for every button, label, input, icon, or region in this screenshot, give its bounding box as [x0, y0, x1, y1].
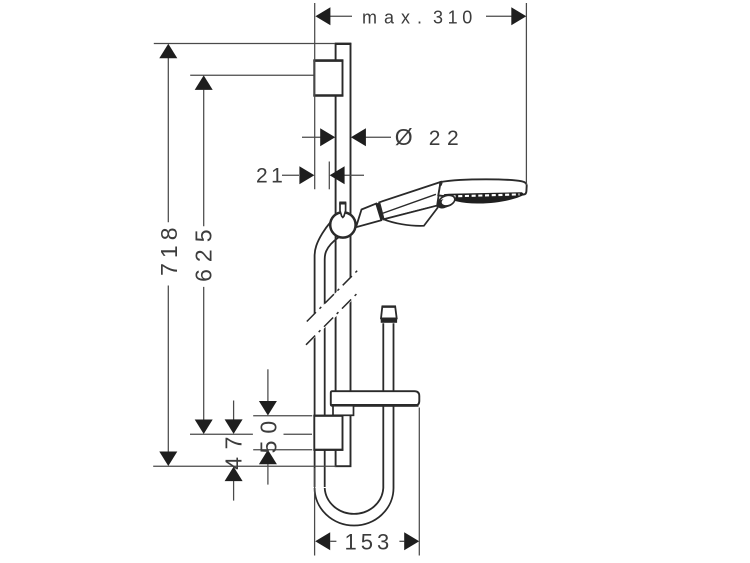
dia22 leader right: [366, 136, 392, 138]
718 top tick: [154, 43, 335, 45]
max310 right arrow: [511, 7, 526, 25]
dimension texts: [156, 8, 477, 555]
47 top arrow: [225, 419, 243, 434]
shelf clamp: [333, 406, 354, 416]
max310 right extension: [525, 3, 527, 185]
625 top tick: [190, 74, 314, 76]
50 bottom arrow: [259, 450, 277, 465]
break line lower: [306, 292, 359, 345]
svg-text:153: 153: [345, 529, 394, 554]
svg-text:max.: max.: [362, 8, 429, 28]
21 right tick: [328, 162, 330, 190]
hand shower handle: [379, 182, 440, 219]
svg-text:Ø: Ø: [395, 124, 413, 150]
bottom bracket heavy edges: [313, 415, 343, 417]
soap dish shelf: [331, 391, 420, 406]
50 dim line: [267, 369, 269, 401]
153 right arrow: [404, 532, 419, 550]
break band: [302, 267, 362, 351]
top bracket heavy edges: [313, 59, 343, 62]
svg-text:21: 21: [256, 164, 286, 187]
hose nut base band: [381, 318, 397, 322]
slider knob: [340, 203, 346, 217]
svg-text:718: 718: [156, 223, 182, 276]
21 right arrow: [330, 166, 345, 184]
718 bottom arrow: [159, 452, 177, 467]
hand shower collar: [356, 204, 381, 228]
50 ticks: [253, 415, 312, 417]
spray nozzle dashes: [452, 194, 520, 196]
svg-text:22: 22: [429, 127, 466, 150]
top wall bracket: [314, 61, 342, 96]
153 dim stubs: [330, 540, 336, 542]
slider knob cap: [339, 202, 346, 205]
625/47 tick: [190, 433, 253, 435]
break line upper: [307, 269, 360, 322]
dia22 right arrow: [351, 128, 366, 146]
head-handle notch: [440, 182, 442, 185]
21 leader left: [282, 174, 299, 176]
625 bottom arrow: [195, 420, 213, 435]
625 dim line: [203, 90, 205, 227]
718 dim line: [167, 58, 169, 222]
svg-text:47: 47: [221, 429, 247, 470]
21 left arrow: [299, 166, 314, 184]
718 top arrow: [159, 44, 177, 59]
21 leader right: [344, 174, 364, 176]
slider circle: [330, 212, 355, 237]
ball joint highlight: [441, 195, 455, 206]
dimension arrows: [159, 7, 526, 550]
153 left arrow: [315, 532, 330, 550]
handle underside: [384, 206, 438, 226]
svg-text:625: 625: [191, 223, 217, 282]
shower head body: [438, 179, 526, 196]
hose from slider (inner): [325, 237, 339, 487]
153 extension lines: [314, 468, 316, 556]
bar top cap heavy edge: [335, 43, 352, 45]
47 bottom arrow: [225, 467, 243, 482]
ball joint oval: [437, 193, 456, 208]
wall extension line (max310 left / 21 left): [314, 3, 316, 189]
625 top arrow: [195, 75, 213, 90]
dia22 leader left: [302, 136, 321, 138]
spray face (dark band): [443, 192, 525, 203]
max310 dim line stubs: [330, 15, 352, 17]
dia22 left arrow: [320, 128, 335, 146]
collar separator band: [376, 202, 384, 220]
bottom wall bracket: [314, 416, 342, 450]
hose U-turn: [315, 323, 394, 525]
hose from slider (outer): [315, 223, 331, 488]
slide bar: [336, 44, 351, 466]
handle ridge line: [382, 194, 436, 213]
47 dim line: [233, 401, 235, 420]
ball joint crescent: [436, 197, 451, 210]
svg-text:50: 50: [255, 414, 281, 454]
bottom reference line: [153, 465, 336, 467]
hose conical nut: [381, 307, 397, 319]
50 top arrow: [259, 401, 277, 416]
max310 left arrow: [315, 7, 330, 25]
svg-text:310: 310: [433, 8, 477, 28]
shelf bottom thick edge: [332, 404, 419, 407]
